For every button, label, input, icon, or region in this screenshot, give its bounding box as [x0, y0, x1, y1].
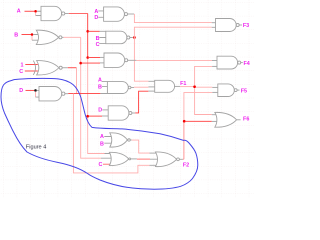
gate G2 NOR(B,B) — [36, 30, 63, 44]
gate G4 NAND(D,D) — [39, 87, 68, 101]
wire C to G3 — [25, 70, 38, 72]
gate G5 NAND(A,D) — [104, 7, 135, 21]
svg-text:F5: F5 — [241, 88, 247, 94]
gate G1 NAND(A,A) — [41, 6, 69, 20]
svg-text:D: D — [98, 108, 102, 114]
wire F1 to dotA — [180, 86, 193, 88]
wire G1 output A' — [69, 13, 88, 15]
wire G3 output — [68, 67, 77, 69]
gate G13 NOR(A,B) — [110, 133, 132, 147]
svg-text:F2: F2 — [183, 163, 189, 169]
svg-text:D: D — [94, 15, 98, 21]
wire dot3 to G7 — [82, 62, 101, 64]
node B junction dot — [31, 33, 34, 36]
svg-text:A: A — [94, 9, 98, 15]
wire D branch to G4 pin2 — [35, 92, 37, 98]
wire A to G1 — [25, 10, 35, 12]
wire F1 down to F6 — [195, 88, 212, 115]
svg-text:C: C — [19, 69, 23, 75]
pin stubs G2 — [32, 35, 40, 41]
svg-text:C: C — [99, 162, 103, 168]
svg-text:1: 1 — [21, 62, 24, 68]
wire G2 output B' — [64, 36, 81, 38]
wire G15 output to riser — [183, 158, 184, 160]
svg-text:B: B — [14, 32, 18, 38]
pin stubs G8 — [100, 82, 107, 94]
svg-text:Figure 4: Figure 4 — [26, 145, 47, 151]
gate G15 NOR3 (F2) — [155, 152, 183, 167]
wire G8 output to G10 — [134, 86, 148, 88]
wire G9 output to G10 — [135, 91, 148, 113]
pin stubs G5 — [98, 11, 103, 17]
wire dot1 to G6 — [88, 30, 100, 32]
svg-text:A: A — [98, 78, 102, 84]
wire F2 riser from G15 — [183, 121, 185, 159]
svg-text:F3: F3 — [243, 23, 249, 29]
node dot1 A' to G6 — [86, 30, 89, 33]
wire dot2 to G7 — [88, 57, 100, 59]
wire D' vertical bus — [73, 94, 149, 173]
node dotA F1 junction — [193, 85, 196, 88]
gate F5 NAND — [218, 84, 240, 97]
node dot2 A' to G7 — [86, 56, 89, 59]
node dot G6 output — [133, 36, 136, 39]
wire G7 output to F4 — [136, 59, 212, 61]
wire B branch to G2 pin2 — [31, 36, 33, 41]
gate G14 NOR3(A',B',C) — [109, 152, 136, 165]
wire G14 output to G15 — [137, 158, 150, 160]
svg-text:A: A — [100, 134, 104, 140]
gate G8 NAND(A,B,D') — [107, 82, 134, 94]
gate G6 NAND(A',B,C) — [106, 31, 133, 44]
wire B to G2 — [22, 34, 31, 36]
wire dot5 to G9 — [88, 115, 102, 117]
pin stubs G1 — [36, 11, 41, 15]
gate F6 OR — [215, 112, 241, 127]
wire G5 output to F3 — [134, 14, 211, 23]
wire F1 to F5 — [196, 86, 213, 88]
svg-text:D: D — [19, 88, 23, 94]
wire G13 output to G15 — [132, 140, 150, 153]
svg-text:A: A — [17, 8, 21, 14]
node dot3 B' to G7 — [79, 62, 82, 65]
pin stub G15 in3 — [150, 164, 160, 166]
svg-text:B: B — [100, 141, 104, 147]
wire F1 up to F4 — [195, 66, 213, 85]
wire A branch to G1 pin2 — [35, 12, 37, 15]
svg-text:F6: F6 — [243, 117, 249, 123]
wire G4 output D' to G8 — [68, 93, 100, 95]
svg-text:F4: F4 — [243, 61, 249, 67]
gate F3 NAND — [216, 19, 243, 32]
gate F4 NAND — [217, 56, 243, 69]
wire C to G14 — [103, 163, 113, 165]
svg-text:B: B — [98, 85, 102, 91]
node D junction dot (black) — [34, 89, 37, 92]
wire 1 to G3 — [25, 64, 38, 66]
wire D to G4 — [26, 89, 35, 91]
wire dot4 to F6 — [185, 120, 212, 122]
gate G10 AND3 (F1) — [155, 80, 180, 92]
gate G7 NAND(A',B') — [104, 53, 136, 67]
wire G6 out down to G10 — [134, 38, 148, 82]
svg-text:C: C — [96, 42, 100, 48]
pin stubs G13 — [104, 137, 113, 144]
wire B' vertical bus — [81, 37, 101, 158]
pin stubs G6 — [99, 38, 106, 44]
node dot4 F2 junction — [183, 120, 186, 123]
annotation blue loop — [1, 78, 198, 189]
wire F2 riser to F5 — [184, 93, 212, 121]
pin stub G9 — [102, 109, 108, 111]
pin stubs G4 — [36, 90, 40, 97]
wire G3 output vertical — [76, 68, 78, 94]
node dot5 A' to G9 — [86, 115, 89, 118]
wire G6 out up to F3 — [134, 27, 211, 37]
wire A' vertical bus — [87, 14, 89, 58]
node A junction dot — [34, 10, 37, 13]
pin stubs G14 — [101, 154, 113, 159]
gate G3 XNOR(1,C) — [33, 61, 68, 75]
gate G9 NAND(D,A') — [108, 106, 135, 120]
